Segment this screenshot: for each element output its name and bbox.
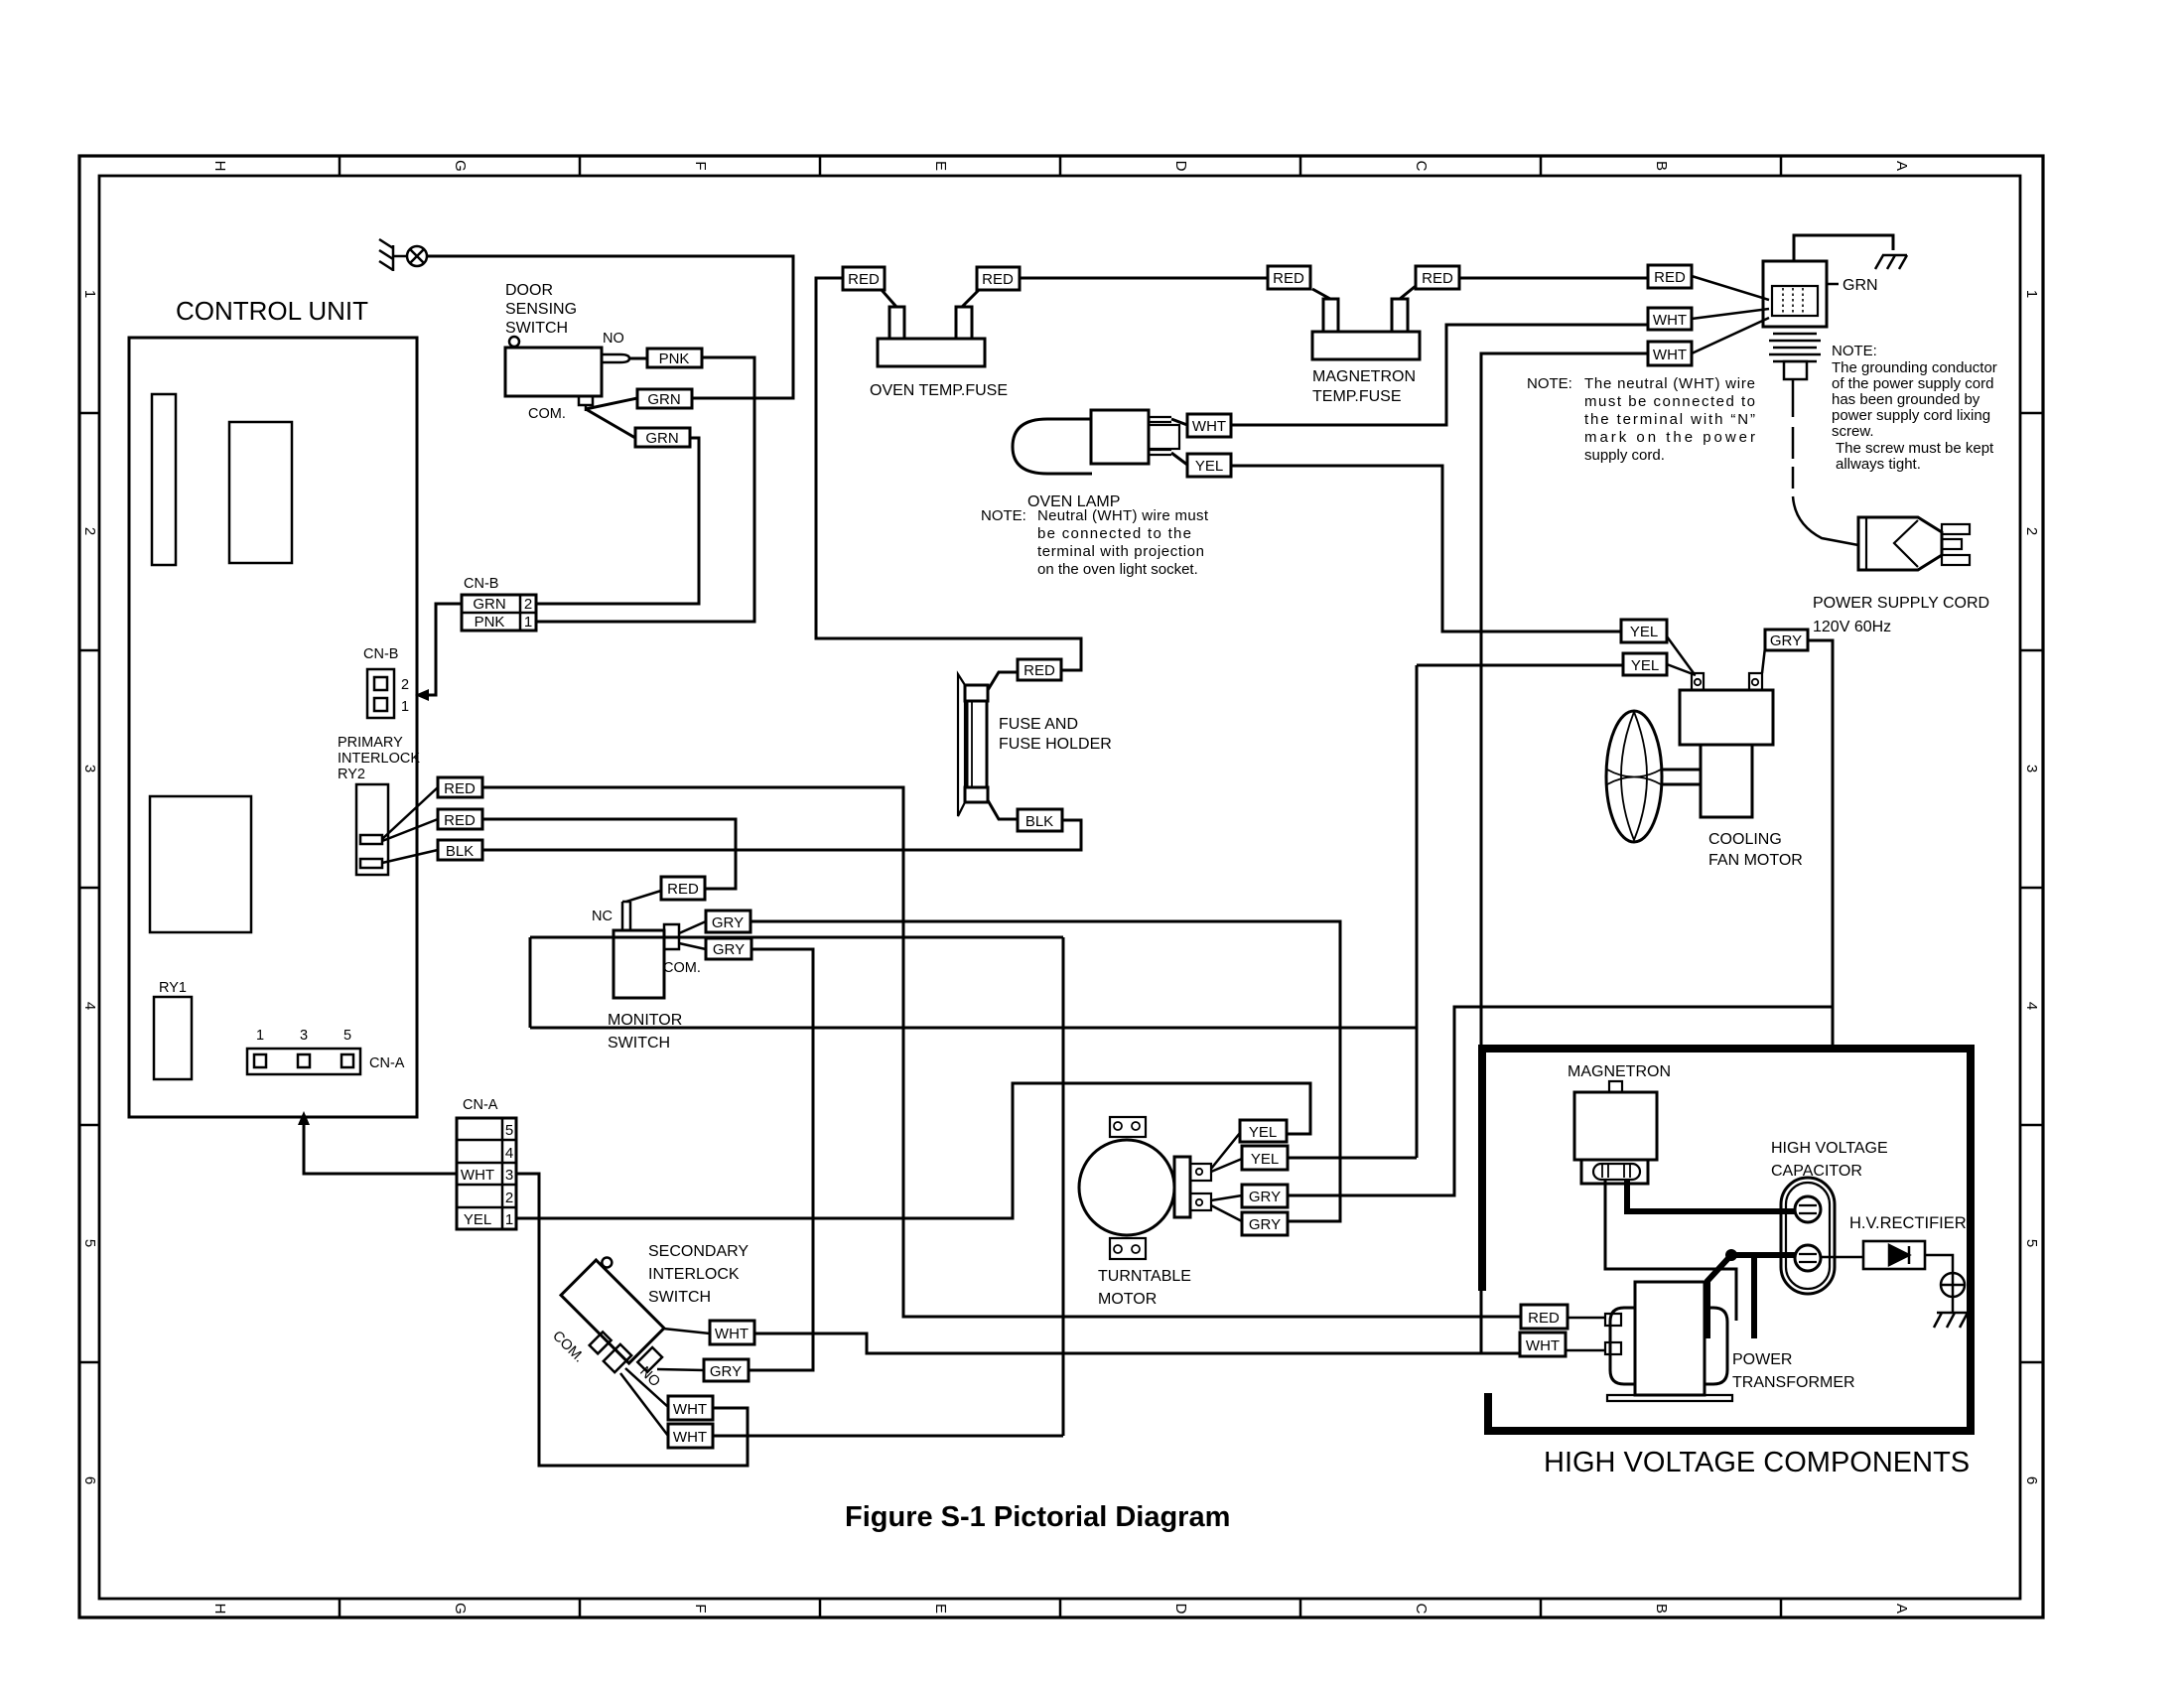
H.V. rectifier diode xyxy=(1863,1241,1925,1269)
note grounding conductor text xyxy=(1832,343,1997,473)
wire to HV ground xyxy=(1952,1297,1955,1313)
svg-text:SENSING: SENSING xyxy=(505,301,577,318)
tag PNK xyxy=(647,349,702,367)
wire secondary WHT top to transformer WHT xyxy=(754,1333,1520,1353)
svg-text:GRN: GRN xyxy=(645,430,678,447)
wire fan GRY stub into HV box xyxy=(1832,1007,1835,1045)
svg-text:SWITCH: SWITCH xyxy=(608,1035,670,1052)
svg-text:TRANSFORMER: TRANSFORMER xyxy=(1732,1374,1855,1391)
svg-text:D: D xyxy=(1172,1604,1189,1614)
svg-text:OVEN TEMP.FUSE: OVEN TEMP.FUSE xyxy=(870,382,1008,399)
svg-text:E: E xyxy=(932,161,949,171)
svg-text:screw.: screw. xyxy=(1832,423,1874,440)
oven temp fuse body xyxy=(878,290,985,366)
svg-text:NOTE:: NOTE: xyxy=(1832,343,1877,359)
svg-text:GRY: GRY xyxy=(712,914,744,931)
svg-text:Figure S-1 Pictorial Diagram: Figure S-1 Pictorial Diagram xyxy=(845,1501,1230,1533)
tag YEL lamp xyxy=(1187,454,1231,477)
tag GRY turntable 1 xyxy=(1242,1185,1288,1207)
wire YEL node horizontal y944 xyxy=(530,936,1063,939)
RY2 contact 1 xyxy=(360,835,382,844)
wire oven fuse to magnetron fuse xyxy=(1020,277,1268,280)
svg-text:COM.: COM. xyxy=(528,406,566,422)
POWER TRANSFORMER label xyxy=(1732,1351,1855,1391)
svg-text:2: 2 xyxy=(505,1190,513,1206)
connector CN-B wire side xyxy=(462,576,536,631)
svg-text:RED: RED xyxy=(848,271,880,288)
svg-text:WHT: WHT xyxy=(715,1326,749,1342)
svg-text:D: D xyxy=(1172,161,1189,172)
turntable motor xyxy=(1079,1117,1211,1259)
svg-text:GRN: GRN xyxy=(1843,277,1878,294)
wires fan tags to terminals xyxy=(1667,636,1765,675)
svg-text:G: G xyxy=(452,1603,469,1614)
wire RY2 RED2 to monitor RED xyxy=(482,819,736,889)
MONITOR SWITCH label xyxy=(608,1012,682,1052)
zone letters top xyxy=(211,160,1910,172)
wire monitor GRY2 to secondary interlock GRY xyxy=(749,949,813,1370)
svg-text:PRIMARY: PRIMARY xyxy=(338,735,403,751)
svg-text:H: H xyxy=(211,1604,228,1614)
svg-text:1: 1 xyxy=(401,699,409,715)
zone numbers left xyxy=(81,290,98,1484)
svg-text:GRY: GRY xyxy=(1249,1189,1281,1205)
svg-text:supply cord.: supply cord. xyxy=(1584,447,1665,464)
wire secondary NO side to WHT tag xyxy=(663,1329,710,1333)
svg-text:YEL: YEL xyxy=(1249,1124,1277,1141)
chassis ground top-left xyxy=(379,239,407,271)
power transformer xyxy=(1605,1282,1732,1401)
svg-text:WHT: WHT xyxy=(1192,418,1226,435)
tag RED fuse holder xyxy=(1018,659,1061,680)
wire COM to GRN tags xyxy=(586,398,637,438)
wire NO to PNK xyxy=(629,357,647,360)
tag GRY turntable 2 xyxy=(1242,1212,1288,1235)
tag YEL fan 2 xyxy=(1623,653,1667,675)
svg-text:COOLING: COOLING xyxy=(1708,831,1782,848)
HIGH VOLTAGE COMPONENTS box xyxy=(1482,1049,1971,1431)
control unit component rect 1 xyxy=(152,394,176,565)
svg-text:RED: RED xyxy=(444,812,476,829)
COOLING FAN MOTOR label xyxy=(1708,831,1803,869)
high voltage capacitor body xyxy=(1781,1178,1835,1294)
wire YEL node horizontal y1035 xyxy=(530,1027,1417,1030)
power supply plug xyxy=(1858,517,1970,570)
wire CN-B to control unit connector with arrow xyxy=(429,604,462,695)
tag RED monitor xyxy=(661,877,705,900)
wire CN-A pin1 YEL to turntable YEL1 xyxy=(516,1083,1310,1218)
svg-text:RED: RED xyxy=(1654,269,1686,286)
wire CN-A pin3 to control unit arrow xyxy=(304,1125,457,1174)
HV ground symbol xyxy=(1934,1313,1970,1328)
svg-text:DOOR: DOOR xyxy=(505,282,553,299)
svg-text:RED: RED xyxy=(1528,1310,1560,1327)
wire CN-A pin3 right loop to secondary WHT2 xyxy=(516,1174,748,1466)
svg-text:NOTE:: NOTE: xyxy=(981,507,1026,524)
svg-text:RED: RED xyxy=(667,881,699,898)
wire magnetron fuse to power cord RED xyxy=(1459,277,1648,280)
door switch plunger xyxy=(509,337,519,347)
svg-text:2: 2 xyxy=(524,596,532,613)
wires tags to cord terminal block xyxy=(1692,276,1769,353)
GRN label with leader xyxy=(1827,283,1839,286)
tag GRY monitor 1 xyxy=(706,911,751,932)
svg-text:GRY: GRY xyxy=(713,941,745,958)
svg-text:GRY: GRY xyxy=(710,1363,742,1380)
tag WHT secondary bottom xyxy=(668,1424,713,1448)
lamp symbol circle-X xyxy=(407,246,427,266)
SECONDARY INTERLOCK SWITCH label xyxy=(648,1243,749,1306)
tag WHT power cord 2 xyxy=(1648,342,1692,365)
svg-text:INTERLOCK: INTERLOCK xyxy=(648,1266,740,1283)
svg-text:be connected to the: be connected to the xyxy=(1037,525,1191,542)
connector CN-A wire side xyxy=(457,1097,516,1229)
svg-text:2: 2 xyxy=(401,677,409,693)
svg-text:NO: NO xyxy=(603,331,624,347)
svg-text:B: B xyxy=(1653,161,1670,171)
svg-text:GRY: GRY xyxy=(1770,632,1802,649)
tag WHT secondary mid xyxy=(668,1396,713,1420)
svg-text:MAGNETRON: MAGNETRON xyxy=(1312,368,1416,385)
monitor NC terminal xyxy=(622,902,630,930)
svg-text:1: 1 xyxy=(524,614,532,631)
wire turntable YEL2 riser xyxy=(1288,1157,1417,1160)
cooling fan motor assembly xyxy=(1606,673,1773,842)
note neutral wire text xyxy=(1527,375,1755,464)
svg-text:PNK: PNK xyxy=(475,614,505,631)
svg-text:A: A xyxy=(1893,161,1910,171)
svg-text:5: 5 xyxy=(505,1122,513,1139)
tag RED RY2-2 xyxy=(438,809,482,829)
svg-text:BLK: BLK xyxy=(446,843,474,860)
svg-text:PNK: PNK xyxy=(659,351,690,367)
zone ticks top xyxy=(79,156,2043,1617)
zone ticks bottom xyxy=(340,1599,1781,1617)
tag RED power cord xyxy=(1648,265,1692,288)
wire fan YEL2 riser x1427 xyxy=(1416,665,1419,1158)
NO terminal xyxy=(602,354,629,362)
svg-text:C: C xyxy=(1413,161,1430,172)
relay RY2 PRIMARY INTERLOCK label xyxy=(338,735,420,782)
wire secondary NO terminal to GRY tag xyxy=(657,1369,704,1370)
thick wire capacitor to transformer xyxy=(1707,1255,1795,1338)
wires secondary COM to WHT tags xyxy=(620,1368,668,1436)
svg-text:5: 5 xyxy=(343,1028,351,1044)
svg-text:power supply cord lixing: power supply cord lixing xyxy=(1832,407,1990,424)
tag BLK RY2 xyxy=(438,840,482,860)
svg-text:C: C xyxy=(1413,1604,1430,1614)
svg-text:MAGNETRON: MAGNETRON xyxy=(1568,1063,1671,1080)
svg-text:2: 2 xyxy=(2023,527,2040,535)
svg-text:H.V.RECTIFIER: H.V.RECTIFIER xyxy=(1849,1214,1967,1232)
svg-text:BLK: BLK xyxy=(1025,813,1053,830)
svg-text:RY2: RY2 xyxy=(338,767,365,782)
control unit component rect 2 xyxy=(229,422,292,563)
wires turntable terminals to tags xyxy=(1211,1133,1242,1221)
svg-text:YEL: YEL xyxy=(1251,1151,1279,1168)
DOOR SENSING SWITCH label xyxy=(505,282,577,337)
tag GRN 1 xyxy=(637,389,692,408)
svg-text:COM.: COM. xyxy=(663,960,701,976)
svg-text:YEL: YEL xyxy=(464,1211,491,1228)
zone ticks right xyxy=(2020,413,2043,1362)
svg-text:RED: RED xyxy=(1024,662,1055,679)
monitor COM terminal xyxy=(664,924,679,949)
svg-text:FAN MOTOR: FAN MOTOR xyxy=(1708,852,1803,869)
svg-text:WHT: WHT xyxy=(673,1429,707,1446)
oven lamp bulb xyxy=(1013,410,1187,474)
svg-text:MOTOR: MOTOR xyxy=(1098,1291,1157,1308)
svg-text:TEMP.FUSE: TEMP.FUSE xyxy=(1312,388,1402,405)
wire oven fuse to fuse holder loop xyxy=(816,278,1081,670)
HIGH VOLTAGE CAPACITOR label xyxy=(1771,1140,1888,1180)
connector CN-A pins on board xyxy=(247,1028,405,1074)
svg-text:1: 1 xyxy=(2023,290,2040,298)
svg-text:RED: RED xyxy=(444,780,476,797)
svg-text:POWER: POWER xyxy=(1732,1351,1792,1368)
zone letters bottom xyxy=(211,1603,1910,1614)
svg-text:120V 60Hz: 120V 60Hz xyxy=(1813,619,1891,635)
ground terminal circle xyxy=(1941,1273,1965,1297)
tag GRY secondary xyxy=(704,1359,749,1381)
tag RED magnetron fuse left xyxy=(1268,266,1310,289)
power cord terminal block xyxy=(1763,261,1827,327)
wire WHT3 riser x1071 xyxy=(1062,937,1065,1436)
svg-text:5: 5 xyxy=(2023,1239,2040,1247)
svg-text:CN-A: CN-A xyxy=(463,1097,498,1113)
svg-text:H: H xyxy=(211,161,228,172)
sheet outer border xyxy=(79,156,2043,1617)
COM terminal xyxy=(579,396,593,411)
svg-text:The grounding conductor: The grounding conductor xyxy=(1832,359,1997,376)
svg-text:GRY: GRY xyxy=(1249,1216,1281,1233)
secondary interlock switch body xyxy=(561,1252,672,1363)
RY2 contact 2 xyxy=(360,859,382,868)
tag RED oven fuse left xyxy=(843,267,885,290)
wire rectifier to ground xyxy=(1925,1255,1953,1273)
svg-text:CN-B: CN-B xyxy=(464,576,498,592)
svg-text:A: A xyxy=(1893,1604,1910,1614)
svg-text:Neutral (WHT) wire must: Neutral (WHT) wire must xyxy=(1037,507,1209,524)
svg-text:The neutral (WHT) wire: The neutral (WHT) wire xyxy=(1584,375,1755,392)
svg-text:6: 6 xyxy=(81,1476,98,1484)
svg-text:NC: NC xyxy=(592,909,613,924)
svg-text:HIGH VOLTAGE COMPONENTS: HIGH VOLTAGE COMPONENTS xyxy=(1544,1447,1970,1478)
relay RY1 xyxy=(154,997,192,1079)
control unit board outline xyxy=(129,338,417,1117)
thick wire junction dot xyxy=(1725,1249,1737,1261)
connector CN-B on board xyxy=(363,646,409,718)
zone numbers right xyxy=(2023,290,2040,1484)
svg-text:WHT: WHT xyxy=(461,1167,494,1184)
svg-text:1: 1 xyxy=(256,1028,264,1044)
wire lamp symbol to GRN1 via top xyxy=(427,256,793,398)
wire RY2 RED1 to transformer RED xyxy=(482,787,1521,1317)
svg-text:3: 3 xyxy=(300,1028,308,1044)
monitor switch body xyxy=(614,930,664,998)
svg-text:CAPACITOR: CAPACITOR xyxy=(1771,1163,1862,1180)
zone ticks left xyxy=(79,413,99,1362)
tag RED transformer xyxy=(1521,1305,1568,1329)
wire fan GRY to HV box via riser xyxy=(1288,640,1833,1195)
svg-text:YEL: YEL xyxy=(1630,624,1658,640)
svg-text:5: 5 xyxy=(81,1239,98,1247)
wires COM to GRY tags xyxy=(679,921,706,949)
svg-text:3: 3 xyxy=(81,765,98,772)
magnetron temp fuse body xyxy=(1312,286,1420,359)
tag RED RY2-1 xyxy=(438,777,482,797)
magnetron filament thin wire to transformer xyxy=(1605,1180,1736,1321)
wire RY2 BLK to fuse holder BLK xyxy=(482,820,1081,850)
wire monitor GRY1 to turntable GRY2 xyxy=(751,921,1340,1221)
svg-text:WHT: WHT xyxy=(673,1401,707,1418)
tag GRN 2 xyxy=(635,428,690,447)
svg-text:must be connected to: must be connected to xyxy=(1584,393,1755,410)
wire PNK to CN-B pin1 xyxy=(536,357,754,622)
svg-text:NOTE:: NOTE: xyxy=(1527,375,1572,392)
tag RED oven fuse right xyxy=(977,267,1020,290)
svg-text:WHT: WHT xyxy=(1653,312,1687,329)
svg-text:F: F xyxy=(692,161,709,170)
svg-text:HIGH VOLTAGE: HIGH VOLTAGE xyxy=(1771,1140,1888,1157)
ground symbol power cord xyxy=(1875,255,1907,269)
svg-text:SECONDARY: SECONDARY xyxy=(648,1243,749,1260)
wire block to ground xyxy=(1794,235,1893,261)
svg-text:SWITCH: SWITCH xyxy=(505,320,568,337)
svg-text:G: G xyxy=(452,160,469,172)
tag WHT transformer xyxy=(1520,1333,1566,1356)
svg-text:4: 4 xyxy=(81,1002,98,1010)
magnetron body xyxy=(1574,1081,1657,1184)
svg-text:RED: RED xyxy=(1273,270,1304,287)
svg-text:WHT: WHT xyxy=(1653,347,1687,363)
svg-text:RY1: RY1 xyxy=(159,980,187,996)
svg-text:4: 4 xyxy=(505,1145,513,1162)
svg-text:RED: RED xyxy=(1422,270,1453,287)
wire lamp WHT to cord WHT1 xyxy=(1231,325,1648,425)
MAGNETRON TEMP.FUSE label xyxy=(1312,368,1416,405)
tag WHT lamp xyxy=(1187,414,1231,437)
svg-text:GRN: GRN xyxy=(473,596,505,613)
svg-text:has been grounded by: has been grounded by xyxy=(1832,391,1980,408)
svg-text:The screw must be kept: The screw must be kept xyxy=(1836,440,1994,457)
svg-text:TURNTABLE: TURNTABLE xyxy=(1098,1268,1191,1285)
svg-text:GRN: GRN xyxy=(647,391,680,408)
svg-text:FUSE AND: FUSE AND xyxy=(999,716,1078,733)
TURNTABLE MOTOR label xyxy=(1098,1268,1191,1308)
thick wire branch to transformer xyxy=(1751,1255,1757,1338)
wire lamp YEL to fan YEL1 xyxy=(1231,466,1621,631)
wire fan YEL2 left xyxy=(1417,664,1623,667)
svg-text:allways tight.: allways tight. xyxy=(1836,456,1921,473)
svg-text:6: 6 xyxy=(2023,1476,2040,1484)
FUSE AND FUSE HOLDER label xyxy=(999,716,1112,753)
tag WHT secondary top xyxy=(710,1321,754,1344)
svg-text:CN-A: CN-A xyxy=(369,1055,405,1071)
svg-text:1: 1 xyxy=(505,1211,513,1228)
tag YEL fan 1 xyxy=(1621,620,1667,642)
wire YEL node vertical x534 xyxy=(529,937,532,1028)
wire RY2 contacts to tags xyxy=(382,787,438,863)
tag RED magnetron fuse right xyxy=(1416,266,1459,289)
svg-text:POWER SUPPLY CORD: POWER SUPPLY CORD xyxy=(1813,595,1989,612)
relay RY2 body xyxy=(356,784,388,875)
wire secondary WHT bottom long xyxy=(713,1435,1063,1438)
control unit component rect 3 xyxy=(150,796,251,932)
svg-text:on the oven light socket.: on the oven light socket. xyxy=(1037,561,1198,578)
svg-text:B: B xyxy=(1653,1604,1670,1614)
svg-text:MONITOR: MONITOR xyxy=(608,1012,682,1029)
svg-text:CONTROL UNIT: CONTROL UNIT xyxy=(176,296,368,326)
wire GRN2 to CN-B pin2 xyxy=(536,438,699,604)
tag WHT power cord 1 xyxy=(1648,308,1692,330)
note oven lamp text xyxy=(981,507,1209,578)
power cord strain relief xyxy=(1769,334,1858,545)
svg-text:1: 1 xyxy=(81,290,98,298)
wire WHT2 to x1492 drop xyxy=(1481,353,1648,1353)
svg-text:of the power supply cord: of the power supply cord xyxy=(1832,375,1993,392)
wire capacitor to rectifier xyxy=(1821,1256,1863,1259)
door sensing switch body xyxy=(505,348,602,396)
svg-text:E: E xyxy=(932,1604,949,1614)
drawing area inner border xyxy=(99,176,2020,1599)
fuse and fuse holder xyxy=(958,672,1018,819)
svg-text:SWITCH: SWITCH xyxy=(648,1289,711,1306)
tag GRY fan xyxy=(1765,630,1808,650)
wires tags to transformer terminals xyxy=(1566,1318,1605,1350)
svg-text:YEL: YEL xyxy=(1631,657,1659,674)
tag GRY monitor 2 xyxy=(706,938,751,959)
svg-text:terminal with projection: terminal with projection xyxy=(1037,543,1204,560)
svg-text:YEL: YEL xyxy=(1195,458,1223,475)
svg-text:3: 3 xyxy=(2023,765,2040,772)
magnetron HV thick wire to capacitor xyxy=(1627,1180,1795,1211)
svg-text:INTERLOCK: INTERLOCK xyxy=(338,751,420,767)
tag BLK fuse holder xyxy=(1018,809,1062,831)
svg-text:WHT: WHT xyxy=(1526,1337,1560,1354)
svg-text:3: 3 xyxy=(505,1167,513,1184)
tag YEL turntable 2 xyxy=(1242,1146,1288,1170)
svg-text:CN-B: CN-B xyxy=(363,646,398,662)
svg-text:4: 4 xyxy=(2023,1002,2040,1010)
wire NC to RED tag xyxy=(626,891,661,902)
svg-text:RED: RED xyxy=(982,271,1014,288)
tag YEL turntable 1 xyxy=(1240,1120,1287,1142)
svg-text:FUSE HOLDER: FUSE HOLDER xyxy=(999,736,1112,753)
POWER SUPPLY CORD label xyxy=(1813,595,1989,635)
svg-text:2: 2 xyxy=(81,527,98,535)
svg-text:F: F xyxy=(692,1604,709,1613)
